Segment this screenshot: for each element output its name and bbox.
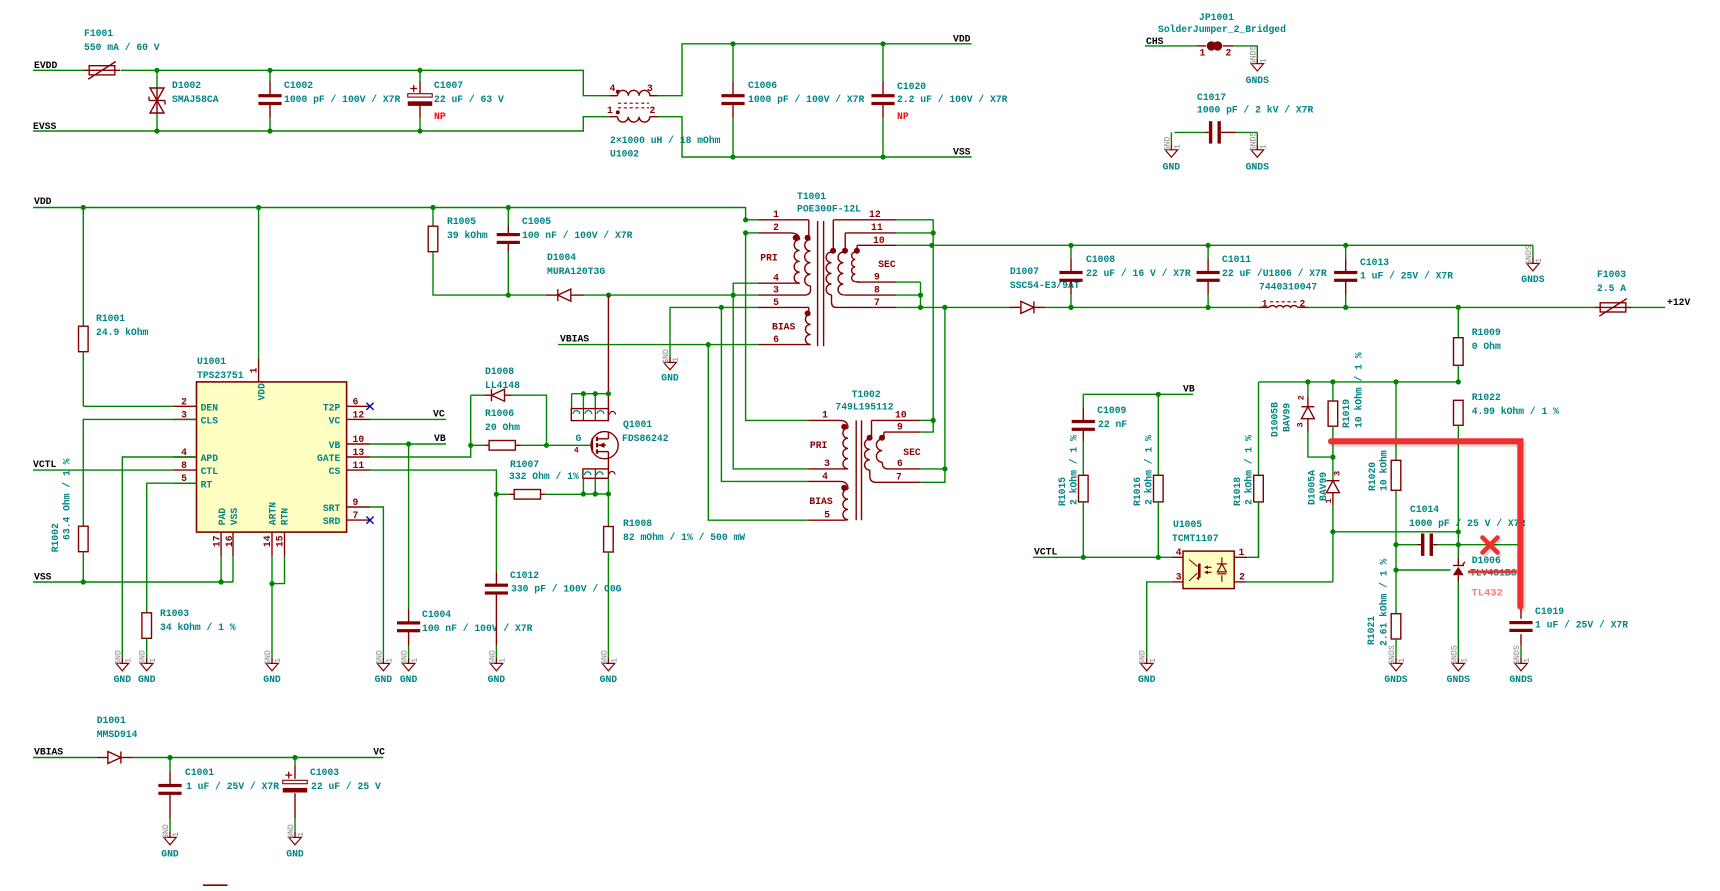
junction fb-D1005B	[1305, 379, 1310, 384]
diode D1005A BAV99	[1307, 457, 1343, 532]
capacitor C1004	[397, 609, 533, 652]
svg-text:GATE: GATE	[317, 453, 340, 464]
svg-text:11: 11	[871, 222, 883, 233]
svg-text:1000 pF / 2 kV / X7R: 1000 pF / 2 kV / X7R	[1197, 105, 1313, 116]
wire VBIAS to D1001	[33, 757, 97, 759]
diode D1008 LL4148	[471, 366, 547, 445]
wire opto pin3 to GND	[1147, 582, 1172, 652]
power symbol GNDS (R1021)	[1384, 645, 1407, 685]
svg-text:2×1000 uH / 18 mOhm: 2×1000 uH / 18 mOhm	[610, 135, 721, 146]
svg-text:SMAJ58CA: SMAJ58CA	[172, 94, 219, 105]
svg-text:U1005: U1005	[1173, 519, 1202, 530]
svg-text:1: 1	[274, 658, 283, 663]
wire clamp to D1004	[508, 294, 546, 296]
svg-text:SEC: SEC	[903, 447, 921, 458]
U1001 pin 2 DEN	[173, 396, 218, 413]
svg-text:1 uF / 25V / X7R: 1 uF / 25V / X7R	[1360, 271, 1453, 282]
svg-text:+12V: +12V	[1667, 297, 1690, 308]
svg-text:GND: GND	[400, 674, 418, 685]
U1001 pin 3 CLS	[173, 409, 218, 426]
svg-text:1000 pF / 25 V / X7R: 1000 pF / 25 V / X7R	[1409, 518, 1525, 529]
svg-text:7: 7	[353, 510, 359, 521]
svg-text:CS: CS	[329, 466, 341, 477]
svg-text:GND: GND	[661, 373, 679, 384]
svg-text:C1003: C1003	[310, 767, 339, 778]
junction ARTN-RTN	[269, 581, 274, 586]
svg-text:R1001: R1001	[96, 313, 125, 324]
resistor R1002 63.4 Ohm	[50, 458, 88, 582]
svg-text:1: 1	[1174, 144, 1183, 149]
wire VCTL to CTL	[33, 469, 173, 471]
svg-text:GNDS: GNDS	[1384, 674, 1407, 685]
svg-text:7: 7	[896, 472, 902, 483]
svg-text:2: 2	[650, 105, 656, 116]
power symbol GND (RTN)	[263, 650, 283, 685]
svg-text:GND: GND	[662, 349, 671, 364]
svg-text:1: 1	[607, 105, 613, 116]
svg-text:GND: GND	[114, 674, 132, 685]
net label VB (right)	[1183, 384, 1195, 395]
svg-text:D1001: D1001	[97, 715, 126, 726]
capacitor C1005	[497, 208, 633, 296]
junction VB-C1004	[406, 441, 411, 446]
U1001 pin 10 VB	[329, 434, 370, 451]
capacitor C1019	[1509, 606, 1628, 652]
svg-text:LL4148: LL4148	[485, 380, 520, 391]
svg-text:JP1001: JP1001	[1199, 12, 1234, 23]
svg-text:SRT: SRT	[323, 503, 341, 514]
junction VDD-pin1	[743, 217, 748, 222]
svg-text:1: 1	[1149, 658, 1158, 663]
svg-text:C1012: C1012	[510, 570, 539, 581]
svg-text:8: 8	[181, 460, 187, 471]
resistor R1015 2k	[1057, 435, 1088, 557]
U1001 pin 9 SRT	[323, 497, 370, 514]
svg-text:GND: GND	[1138, 674, 1156, 685]
wire APD down to GND	[122, 457, 196, 652]
wire VC stub	[370, 418, 446, 420]
svg-text:D1007: D1007	[1010, 266, 1039, 277]
svg-text:SRD: SRD	[323, 516, 341, 527]
U1001 pin 15 RTN (bottom)	[275, 508, 291, 557]
capacitor C1017	[1175, 92, 1314, 144]
svg-text:1: 1	[499, 658, 508, 663]
svg-text:22 uF / 16 V / X7R: 22 uF / 16 V / X7R	[1086, 268, 1191, 279]
svg-text:1: 1	[411, 658, 420, 663]
svg-text:GNDS: GNDS	[1447, 674, 1470, 685]
wire choke to VDD rail	[658, 44, 972, 96]
svg-text:MMSD914: MMSD914	[97, 729, 138, 740]
net label VSS (top)	[953, 147, 971, 158]
svg-text:R1018: R1018	[1232, 477, 1243, 506]
wire VSS rail	[33, 581, 233, 583]
svg-text:BIAS: BIAS	[772, 322, 795, 333]
junction rail-C1011	[1206, 305, 1211, 310]
junction T1002 pin6	[942, 466, 947, 471]
svg-text:VC: VC	[329, 416, 341, 427]
svg-text:1: 1	[1461, 658, 1470, 663]
svg-text:5: 5	[773, 297, 779, 308]
wire fb2 horizontal	[1333, 531, 1458, 533]
svg-text:C1020: C1020	[897, 81, 926, 92]
wire ARTN/RTN tie	[272, 556, 285, 583]
junction VSS-C1006	[730, 154, 735, 159]
sheet mark	[203, 884, 228, 886]
svg-text:GND: GND	[488, 650, 497, 665]
svg-text:ARTN: ARTN	[267, 502, 278, 525]
svg-text:VB: VB	[1183, 384, 1195, 395]
junction D1005A-fb2	[1330, 529, 1335, 534]
junction VCTL-R1016	[1156, 555, 1161, 560]
svg-text:2: 2	[1300, 299, 1306, 310]
junction source pins c	[606, 491, 611, 496]
capacitor C1011	[1197, 245, 1327, 307]
junction pin7 tie	[918, 305, 923, 310]
svg-text:PRI: PRI	[810, 440, 828, 451]
svg-text:9: 9	[353, 497, 359, 508]
Q1001 drain pin group	[571, 295, 615, 421]
svg-text:GND: GND	[287, 824, 296, 839]
power symbol GND (C1001)	[161, 824, 181, 859]
svg-text:F1003: F1003	[1597, 269, 1626, 280]
wire T1002 sec riser	[944, 307, 946, 469]
diode D1001 MMSD914	[97, 715, 138, 764]
U1001 pin 7 SRD (NC)	[323, 510, 374, 527]
svg-text:9: 9	[897, 421, 903, 432]
svg-text:2: 2	[181, 396, 187, 407]
svg-text:4: 4	[773, 273, 779, 284]
net label VCTL (left)	[33, 459, 56, 470]
capacitor C1012	[485, 494, 622, 652]
svg-text:R1016: R1016	[1132, 477, 1143, 506]
junction rail-T1002 sec	[942, 305, 947, 310]
svg-text:T2P: T2P	[323, 402, 341, 413]
junction VSS-R1002	[81, 579, 86, 584]
highlight X marker	[1483, 538, 1500, 555]
svg-text:2: 2	[773, 222, 779, 233]
junction source pins a	[581, 491, 586, 496]
svg-text:GND: GND	[162, 824, 171, 839]
diode D1004 MURA120T3G	[546, 252, 609, 301]
junction VC-C1001	[167, 755, 172, 760]
svg-text:PAD: PAD	[217, 508, 228, 526]
junction fb-R1020	[1393, 379, 1398, 384]
svg-text:GND: GND	[161, 849, 179, 860]
wire opto pin2 riser	[1332, 532, 1334, 582]
svg-text:D1005A: D1005A	[1307, 470, 1318, 505]
junction fb-R1009/R1022	[1456, 379, 1461, 384]
svg-text:T1002: T1002	[852, 389, 881, 400]
junction R1019-D1005A	[1330, 455, 1335, 460]
wire T1002 pin9 to riser	[921, 420, 934, 432]
net label VSS (left)	[34, 572, 52, 583]
svg-text:D1008: D1008	[485, 366, 514, 377]
wire RT down to R1003	[147, 483, 197, 613]
svg-text:2: 2	[1297, 395, 1307, 400]
TVS diode D1002 SMAJ58CA	[149, 70, 219, 131]
U1001 pin 11 CS	[329, 460, 370, 477]
svg-text:2.5 A: 2.5 A	[1597, 283, 1626, 294]
junction GNDS-C1013	[1343, 243, 1348, 248]
capacitor C1007 (polarized, NP)	[408, 70, 504, 131]
svg-text:1: 1	[1239, 547, 1245, 558]
svg-text:22 nF: 22 nF	[1098, 419, 1127, 430]
net label VBIAS (mid)	[560, 334, 589, 345]
svg-text:15: 15	[275, 535, 286, 547]
svg-text:BIAS: BIAS	[809, 496, 832, 507]
svg-text:10: 10	[895, 410, 907, 421]
svg-text:SolderJumper_2_Bridged: SolderJumper_2_Bridged	[1158, 24, 1286, 35]
svg-text:1: 1	[1535, 258, 1544, 263]
junction pin8 tie	[918, 293, 923, 298]
svg-text:1000 pF / 100V / X7R: 1000 pF / 100V / X7R	[284, 94, 400, 105]
svg-text:1: 1	[125, 658, 134, 663]
svg-text:4: 4	[822, 471, 828, 482]
svg-text:GND: GND	[139, 650, 148, 665]
wire VCTL to opto	[1033, 556, 1172, 558]
svg-text:330 pF / 100V / C0G: 330 pF / 100V / C0G	[511, 584, 622, 595]
junction VDD-R1005	[430, 205, 435, 210]
wire +12V rail	[896, 306, 1665, 308]
power symbol GND (T1001 bias)	[661, 349, 681, 383]
diode D1005B BAV99	[1270, 382, 1333, 457]
capacitor C1020 (NP)	[871, 44, 1007, 157]
wire VDD rail	[33, 208, 746, 220]
svg-text:GNDS: GNDS	[1513, 645, 1522, 665]
svg-text:VBIAS: VBIAS	[560, 334, 589, 345]
wire PAD to VSS rail	[220, 556, 222, 582]
transformer T1002 749L195112	[835, 389, 893, 520]
svg-text:TPS23751: TPS23751	[197, 370, 244, 381]
svg-text:22 uF / 63 V: 22 uF / 63 V	[434, 94, 504, 105]
svg-text:F1001: F1001	[84, 28, 113, 39]
junction CS-R1007	[494, 492, 499, 497]
junction GNDS-C1008	[1068, 243, 1073, 248]
wire choke to VSS rail	[658, 117, 972, 157]
wire T1002 pin6 to riser	[921, 468, 945, 470]
wire C1014 to highlight	[1458, 544, 1520, 546]
net label VBIAS (bottom)	[34, 747, 63, 758]
power symbol GND (APD)	[114, 650, 134, 685]
net label EVSS	[33, 121, 56, 132]
svg-text:GND: GND	[263, 674, 281, 685]
svg-text:C1004: C1004	[422, 609, 451, 620]
resistor R1022 4.99k	[1454, 392, 1560, 532]
U1001 pin 1 VDD (top)	[248, 208, 267, 401]
svg-text:R1005: R1005	[447, 216, 476, 227]
junction drain pins b	[593, 391, 598, 396]
diode D1007 SSC54-E3/9AT	[1009, 266, 1080, 313]
common-mode choke U1002	[607, 83, 721, 160]
wire SRT down to GND	[370, 507, 383, 652]
wire VB feed	[1083, 393, 1193, 395]
svg-text:GND: GND	[1163, 136, 1172, 151]
svg-text:4: 4	[1176, 547, 1182, 558]
wire JP1001 to GNDS	[1233, 46, 1257, 52]
junction VDD-pin2	[743, 230, 748, 235]
svg-text:GNDS: GNDS	[1509, 674, 1532, 685]
svg-text:VB: VB	[434, 433, 446, 444]
power symbol GND (C1017 left)	[1163, 132, 1183, 172]
svg-text:C1019: C1019	[1535, 606, 1564, 617]
U1001 pin 17 PAD (bottom)	[212, 508, 228, 557]
net label VB (U1001)	[434, 433, 446, 444]
power symbol GNDS (C1017 right)	[1246, 132, 1269, 173]
solder jumper JP1001	[1158, 12, 1286, 59]
svg-text:550 mA / 60 V: 550 mA / 60 V	[84, 42, 160, 53]
net label VC (U1001)	[433, 409, 445, 420]
svg-text:GND: GND	[600, 650, 609, 665]
wire GNDS rail	[932, 244, 1533, 246]
svg-text:D1006: D1006	[1472, 555, 1501, 566]
power symbol GND (C1004)	[400, 650, 420, 685]
junction rail-C1008	[1068, 305, 1073, 310]
svg-text:GNDS: GNDS	[1249, 132, 1258, 152]
svg-text:8: 8	[874, 285, 880, 296]
net label VDD (top)	[953, 34, 971, 45]
junction VDD-C1005	[506, 205, 511, 210]
wire VDD riser to T1002 pin1	[746, 233, 809, 421]
power symbol GND (SRT)	[375, 650, 395, 685]
svg-text:CLS: CLS	[201, 416, 219, 427]
wire gate node to Q1001	[547, 444, 591, 446]
junction pin5-T1002 bias	[719, 305, 724, 310]
svg-text:14: 14	[262, 535, 273, 547]
svg-text:2 kOhm / 1 %: 2 kOhm / 1 %	[1144, 435, 1155, 505]
svg-text:R1003: R1003	[160, 608, 189, 619]
wire VSS pin to rail	[232, 556, 234, 582]
resistor R1007 332 Ohm	[496, 459, 583, 499]
svg-text:FDS86242: FDS86242	[622, 433, 669, 444]
highlight overlay net trace	[1331, 441, 1523, 609]
svg-text:R1007: R1007	[510, 459, 539, 470]
junction GATE-R1006	[468, 443, 473, 448]
svg-text:C1008: C1008	[1086, 254, 1115, 265]
junction T1002 pin10	[931, 418, 936, 423]
capacitor C1001	[158, 758, 279, 827]
junction R1020-C1014	[1393, 542, 1398, 547]
svg-text:1: 1	[149, 658, 158, 663]
wire bias riser to T1002 pin4	[721, 307, 808, 481]
svg-text:GNDS: GNDS	[1246, 75, 1269, 86]
svg-text:1: 1	[611, 658, 620, 663]
junction R1020-ref	[1393, 567, 1398, 572]
svg-text:1: 1	[386, 658, 395, 663]
T1001 PRI winding	[758, 209, 811, 296]
svg-text:TL432: TL432	[1471, 588, 1503, 600]
resistor R1020 10k	[1367, 382, 1401, 545]
wire VBIAS riser to T1002 pin5	[708, 345, 808, 521]
wire R1020 to D1006 ref	[1396, 545, 1451, 570]
resistor R1003 34k	[142, 608, 236, 652]
wire CS to R1007	[370, 470, 496, 494]
power symbol GND (R1008)	[600, 650, 620, 685]
capacitor C1006	[721, 44, 864, 157]
net label VDD (left)	[34, 196, 52, 207]
svg-text:3: 3	[1333, 471, 1343, 476]
svg-text:6: 6	[353, 396, 359, 407]
svg-text:TCMT1107: TCMT1107	[1172, 533, 1219, 544]
svg-text:4: 4	[574, 447, 579, 456]
svg-text:NP: NP	[434, 111, 446, 122]
svg-text:GNDS: GNDS	[1388, 645, 1397, 665]
power symbol GNDS (JP1001)	[1246, 45, 1269, 85]
svg-text:3: 3	[647, 83, 653, 94]
svg-text:22 uF /U1806 / X7R: 22 uF /U1806 / X7R	[1222, 268, 1327, 279]
svg-text:C1007: C1007	[434, 80, 463, 91]
power symbol GND (C1012)	[488, 650, 508, 685]
svg-text:1: 1	[672, 357, 681, 362]
U1001 pin 5 RT	[173, 473, 212, 490]
svg-text:1: 1	[773, 209, 779, 220]
svg-text:T1001: T1001	[797, 191, 826, 202]
wire DEN	[83, 405, 173, 407]
junction VBIAS-T1002	[706, 342, 711, 347]
svg-text:6: 6	[897, 458, 903, 469]
svg-text:R1008: R1008	[623, 518, 652, 529]
resistor R1009 0 Ohm	[1454, 307, 1501, 382]
svg-text:RTN: RTN	[279, 508, 290, 526]
svg-text:749L195112: 749L195112	[835, 402, 893, 413]
svg-text:2.61 kOhm / 1 %: 2.61 kOhm / 1 %	[1379, 559, 1390, 646]
svg-text:VB: VB	[329, 440, 341, 451]
wire sec pin10 join	[896, 244, 933, 246]
T1002 BIAS winding	[809, 471, 849, 521]
wire drain to T1001 pin3	[609, 294, 758, 296]
svg-text:GND: GND	[600, 674, 618, 685]
capacitor C1002	[258, 70, 400, 131]
svg-text:SEC: SEC	[878, 259, 896, 270]
junction VC-C1003	[292, 755, 297, 760]
wire EVSS rail	[33, 117, 610, 131]
svg-text:POE300F-12L: POE300F-12L	[797, 204, 861, 215]
junction EVSS-C1007	[417, 128, 422, 133]
svg-text:1: 1	[172, 832, 181, 837]
svg-text:1: 1	[248, 367, 259, 373]
junction EVDD-C1002	[267, 68, 272, 73]
wire VBIAS to T1001 pin6	[558, 344, 758, 346]
svg-text:VCTL: VCTL	[33, 459, 56, 470]
svg-text:U1001: U1001	[197, 356, 226, 367]
svg-text:3: 3	[1176, 572, 1182, 583]
svg-text:GND: GND	[1163, 162, 1181, 173]
svg-text:D1002: D1002	[172, 80, 201, 91]
capacitor C1014	[1396, 504, 1525, 556]
svg-text:NP: NP	[897, 111, 909, 122]
svg-text:7440310047: 7440310047	[1259, 282, 1317, 293]
junction source pins b	[593, 491, 598, 496]
svg-text:GND: GND	[375, 674, 393, 685]
svg-text:1 uF / 25V / X7R: 1 uF / 25V / X7R	[186, 781, 279, 792]
svg-text:GNDS: GNDS	[1525, 245, 1534, 265]
svg-text:10: 10	[353, 434, 365, 445]
svg-text:3: 3	[824, 458, 830, 469]
net label EVDD	[34, 60, 57, 71]
T1002 PRI winding	[809, 410, 849, 470]
svg-text:VDD: VDD	[953, 34, 971, 45]
resistor R1005 39k	[428, 208, 508, 296]
svg-text:16: 16	[224, 535, 235, 547]
svg-text:2.2 uF / 100V / X7R: 2.2 uF / 100V / X7R	[897, 94, 1008, 105]
wire T1001 pin2 stub	[746, 232, 758, 234]
optocoupler U1005 TCMT1107	[1172, 519, 1247, 589]
power symbol GNDS (C1019)	[1509, 645, 1532, 685]
U1001 pin 6 T2P (NC)	[323, 396, 374, 413]
svg-text:GND: GND	[286, 849, 304, 860]
U1001 pin 13 GATE	[317, 447, 370, 464]
svg-text:PRI: PRI	[760, 253, 778, 264]
resistor R1016 2k	[1132, 394, 1163, 557]
